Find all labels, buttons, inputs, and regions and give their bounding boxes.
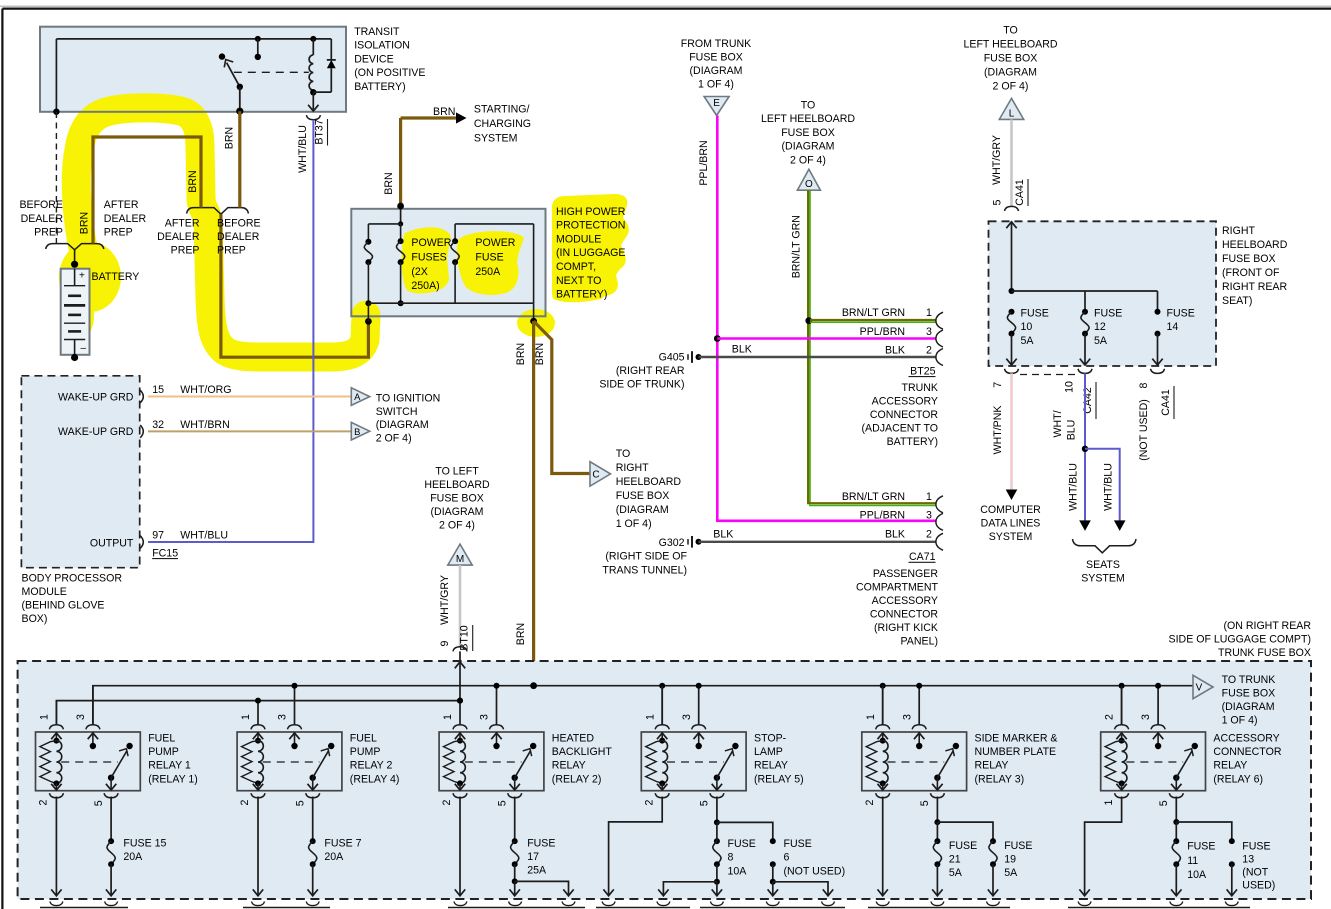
- svg-text:CONNECTOR: CONNECTOR: [870, 609, 938, 621]
- svg-text:5A: 5A: [1094, 335, 1108, 347]
- svg-text:1 OF 4): 1 OF 4): [616, 518, 652, 530]
- svg-text:DEVICE: DEVICE: [354, 53, 393, 65]
- svg-text:BLU: BLU: [1066, 420, 1078, 441]
- svg-text:(IN LUGGAGE: (IN LUGGAGE: [556, 247, 625, 259]
- svg-text:HEELBOARD: HEELBOARD: [616, 476, 682, 488]
- svg-text:DEALER: DEALER: [157, 231, 200, 243]
- svg-text:(DIAGRAM: (DIAGRAM: [431, 506, 484, 518]
- svg-text:1: 1: [926, 491, 932, 503]
- svg-text:BLK: BLK: [885, 528, 905, 540]
- svg-text:CONNECTOR: CONNECTOR: [870, 409, 938, 421]
- svg-text:5: 5: [93, 800, 105, 806]
- svg-text:8: 8: [728, 852, 734, 864]
- svg-text:RIGHT REAR: RIGHT REAR: [1222, 281, 1287, 293]
- svg-text:WHT/GRY: WHT/GRY: [991, 135, 1003, 185]
- svg-text:3: 3: [901, 714, 913, 720]
- svg-text:C: C: [592, 470, 599, 481]
- svg-text:BRN: BRN: [534, 343, 546, 365]
- svg-text:2 OF 4): 2 OF 4): [790, 155, 826, 167]
- svg-text:HIGH POWER: HIGH POWER: [556, 206, 626, 218]
- svg-text:POWER: POWER: [411, 237, 451, 249]
- svg-text:SEATS: SEATS: [1086, 559, 1120, 571]
- svg-text:3: 3: [479, 714, 491, 720]
- svg-text:10: 10: [1021, 321, 1033, 333]
- svg-text:BACKLIGHT: BACKLIGHT: [552, 746, 613, 758]
- svg-text:1 OF 4): 1 OF 4): [698, 79, 734, 91]
- svg-text:BRN/LT GRN: BRN/LT GRN: [842, 491, 905, 503]
- svg-text:(DIAGRAM: (DIAGRAM: [1222, 701, 1275, 713]
- svg-text:WHT/BLU: WHT/BLU: [1068, 463, 1080, 511]
- svg-text:B: B: [354, 426, 360, 437]
- svg-text:FUSE BOX: FUSE BOX: [781, 127, 835, 139]
- svg-text:FUSE BOX: FUSE BOX: [1222, 253, 1276, 265]
- svg-text:PPL/BRN: PPL/BRN: [860, 326, 905, 338]
- svg-text:FUSE BOX: FUSE BOX: [984, 53, 1038, 65]
- svg-text:5A: 5A: [949, 867, 963, 879]
- svg-text:V: V: [1196, 683, 1203, 694]
- svg-text:3: 3: [681, 714, 693, 720]
- svg-text:BLK: BLK: [732, 344, 752, 356]
- svg-text:E: E: [713, 98, 720, 109]
- svg-text:1: 1: [865, 714, 877, 720]
- svg-text:SYSTEM: SYSTEM: [1081, 573, 1125, 585]
- svg-text:15: 15: [152, 384, 164, 396]
- svg-text:97: 97: [152, 530, 164, 542]
- svg-text:(ON RIGHT REAR: (ON RIGHT REAR: [1223, 620, 1311, 632]
- svg-text:PPL/BRN: PPL/BRN: [860, 510, 905, 522]
- svg-text:11: 11: [1187, 855, 1198, 867]
- svg-text:SWITCH: SWITCH: [376, 406, 418, 418]
- svg-text:(DIAGRAM: (DIAGRAM: [690, 65, 743, 77]
- svg-text:TO IGNITION: TO IGNITION: [376, 392, 441, 404]
- svg-text:DEALER: DEALER: [217, 231, 260, 243]
- svg-text:250A): 250A): [411, 280, 439, 292]
- svg-text:HEATED: HEATED: [552, 732, 595, 744]
- svg-text:G302: G302: [659, 537, 685, 549]
- svg-text:FUSE: FUSE: [728, 838, 756, 850]
- svg-text:+: +: [79, 271, 85, 282]
- svg-text:(RELAY 4): (RELAY 4): [350, 773, 400, 785]
- svg-text:RELAY 1: RELAY 1: [148, 760, 191, 772]
- svg-text:(FRONT OF: (FRONT OF: [1222, 267, 1280, 279]
- svg-text:FUSE: FUSE: [1187, 841, 1215, 853]
- svg-text:20A: 20A: [324, 851, 344, 863]
- svg-text:19: 19: [1004, 853, 1016, 865]
- svg-text:CA42: CA42: [1082, 387, 1094, 414]
- svg-text:2: 2: [864, 799, 876, 805]
- svg-text:WHT/PNK: WHT/PNK: [992, 406, 1004, 455]
- svg-text:5A: 5A: [1021, 335, 1035, 347]
- svg-text:(RIGHT SIDE OF: (RIGHT SIDE OF: [605, 550, 687, 562]
- svg-text:PPL/BRN: PPL/BRN: [698, 140, 710, 185]
- svg-text:LEFT HEELBOARD: LEFT HEELBOARD: [761, 113, 855, 125]
- svg-text:RIGHT: RIGHT: [616, 462, 649, 474]
- svg-text:USED): USED): [1242, 880, 1275, 892]
- svg-text:FUEL: FUEL: [350, 732, 377, 744]
- svg-text:25A: 25A: [527, 865, 547, 877]
- svg-text:FUSE 15: FUSE 15: [123, 837, 166, 849]
- svg-text:(ADJACENT TO: (ADJACENT TO: [861, 423, 938, 435]
- svg-text:(NOT: (NOT: [1242, 867, 1268, 879]
- svg-text:WHT/ORG: WHT/ORG: [180, 384, 231, 396]
- svg-text:(BEHIND GLOVE: (BEHIND GLOVE: [22, 600, 105, 612]
- svg-text:TRANSIT: TRANSIT: [354, 26, 400, 38]
- svg-text:(2X: (2X: [411, 266, 428, 278]
- svg-text:(RIGHT KICK: (RIGHT KICK: [874, 622, 938, 634]
- svg-text:FC15: FC15: [152, 547, 178, 559]
- svg-text:3: 3: [277, 714, 289, 720]
- svg-text:FUSE: FUSE: [784, 838, 812, 850]
- svg-text:CHARGING: CHARGING: [474, 118, 531, 130]
- svg-text:TO: TO: [801, 99, 816, 111]
- svg-text:SYSTEM: SYSTEM: [474, 132, 518, 144]
- svg-text:20A: 20A: [123, 851, 143, 863]
- svg-text:LEFT HEELBOARD: LEFT HEELBOARD: [964, 39, 1058, 51]
- svg-text:BRN: BRN: [187, 170, 199, 192]
- svg-text:BRN: BRN: [515, 343, 527, 365]
- svg-text:BRN: BRN: [224, 127, 236, 149]
- svg-text:FUSE: FUSE: [949, 840, 977, 852]
- svg-text:SEAT): SEAT): [1222, 295, 1252, 307]
- svg-text:CA71: CA71: [909, 551, 936, 563]
- svg-text:FUSE BOX: FUSE BOX: [430, 493, 484, 505]
- svg-text:MODULE: MODULE: [22, 586, 67, 598]
- svg-text:BRN/LT GRN: BRN/LT GRN: [842, 307, 905, 319]
- svg-text:5: 5: [294, 800, 306, 806]
- svg-text:BT37: BT37: [314, 119, 326, 144]
- svg-text:WHT/GRY: WHT/GRY: [439, 575, 451, 625]
- svg-text:3: 3: [926, 326, 932, 338]
- svg-text:(RELAY 3): (RELAY 3): [975, 773, 1025, 785]
- svg-text:ISOLATION: ISOLATION: [354, 40, 410, 52]
- svg-text:FUSE: FUSE: [1167, 308, 1195, 320]
- svg-text:TO: TO: [616, 448, 631, 460]
- svg-text:LAMP: LAMP: [754, 746, 783, 758]
- svg-text:BODY PROCESSOR: BODY PROCESSOR: [22, 572, 123, 584]
- svg-text:NUMBER PLATE: NUMBER PLATE: [975, 746, 1057, 758]
- svg-text:RELAY 2: RELAY 2: [350, 760, 393, 772]
- svg-text:BOX): BOX): [22, 613, 48, 625]
- svg-text:BATTERY): BATTERY): [887, 436, 938, 448]
- svg-text:8: 8: [1138, 382, 1150, 388]
- svg-text:L: L: [1009, 108, 1015, 119]
- svg-text:WHT/BLU: WHT/BLU: [1102, 463, 1114, 511]
- svg-text:RIGHT: RIGHT: [1222, 225, 1255, 237]
- svg-text:G405: G405: [659, 351, 685, 363]
- svg-text:14: 14: [1167, 321, 1179, 333]
- svg-text:TO TRUNK: TO TRUNK: [1222, 674, 1276, 686]
- svg-text:AFTER: AFTER: [165, 217, 200, 229]
- svg-text:(RELAY 6): (RELAY 6): [1213, 773, 1263, 785]
- svg-text:2 OF 4): 2 OF 4): [376, 433, 412, 445]
- svg-text:(ON POSITIVE: (ON POSITIVE: [354, 67, 425, 79]
- svg-text:5: 5: [919, 800, 931, 806]
- svg-text:BLK: BLK: [885, 345, 905, 357]
- svg-text:(RIGHT REAR: (RIGHT REAR: [616, 365, 685, 377]
- svg-text:–: –: [81, 343, 87, 354]
- svg-text:COMPUTER: COMPUTER: [980, 504, 1041, 516]
- svg-text:5: 5: [992, 199, 1004, 205]
- svg-text:RELAY: RELAY: [754, 760, 788, 772]
- svg-text:NEXT TO: NEXT TO: [556, 275, 601, 287]
- svg-text:COMPT,: COMPT,: [556, 261, 596, 273]
- svg-text:BATTERY): BATTERY): [354, 81, 405, 93]
- svg-text:CA41: CA41: [1160, 389, 1172, 416]
- svg-text:DATA LINES: DATA LINES: [981, 518, 1041, 530]
- svg-text:BATTERY: BATTERY: [92, 271, 140, 283]
- svg-text:WAKE-UP GRD: WAKE-UP GRD: [58, 426, 134, 438]
- svg-text:2: 2: [38, 799, 50, 805]
- svg-text:ACCESSORY: ACCESSORY: [872, 595, 938, 607]
- svg-text:WHT/BLU: WHT/BLU: [297, 125, 309, 173]
- svg-text:(NOT USED): (NOT USED): [1138, 399, 1150, 461]
- svg-text:PANEL): PANEL): [901, 636, 938, 648]
- svg-text:SIDE OF TRUNK): SIDE OF TRUNK): [599, 379, 684, 391]
- svg-text:COMPARTMENT: COMPARTMENT: [856, 582, 939, 594]
- svg-text:5A: 5A: [1004, 867, 1018, 879]
- svg-text:FUSE: FUSE: [1094, 308, 1122, 320]
- svg-text:HEELBOARD: HEELBOARD: [424, 479, 490, 491]
- svg-text:BRN: BRN: [383, 172, 395, 194]
- svg-text:FUSE BOX: FUSE BOX: [689, 52, 743, 64]
- svg-text:13: 13: [1242, 854, 1254, 866]
- svg-text:17: 17: [527, 851, 539, 863]
- svg-text:WHT/: WHT/: [1052, 410, 1064, 437]
- svg-text:1 OF 4): 1 OF 4): [1222, 715, 1258, 727]
- svg-text:5: 5: [699, 800, 711, 806]
- svg-text:10: 10: [1064, 381, 1076, 393]
- svg-text:RELAY: RELAY: [1213, 760, 1247, 772]
- svg-text:OUTPUT: OUTPUT: [90, 538, 134, 550]
- svg-text:12: 12: [1094, 321, 1106, 333]
- svg-text:BRN: BRN: [515, 623, 527, 645]
- svg-text:PREP: PREP: [34, 227, 63, 239]
- svg-text:1: 1: [39, 714, 51, 720]
- svg-text:SIDE MARKER &: SIDE MARKER &: [975, 732, 1058, 744]
- svg-text:RELAY: RELAY: [975, 760, 1009, 772]
- svg-text:PUMP: PUMP: [350, 746, 381, 758]
- svg-text:FUEL: FUEL: [148, 732, 175, 744]
- svg-text:PASSENGER: PASSENGER: [873, 568, 938, 580]
- svg-text:3: 3: [926, 510, 932, 522]
- svg-text:2: 2: [926, 528, 932, 540]
- svg-text:250A: 250A: [475, 266, 501, 278]
- svg-text:BT25: BT25: [910, 365, 935, 377]
- svg-text:2 OF 4): 2 OF 4): [993, 81, 1029, 93]
- svg-text:5: 5: [1158, 800, 1170, 806]
- svg-text:RELAY: RELAY: [552, 760, 586, 772]
- svg-text:(RELAY 2): (RELAY 2): [552, 773, 602, 785]
- svg-text:AFTER: AFTER: [104, 199, 139, 211]
- svg-text:2: 2: [926, 345, 932, 357]
- svg-text:(RELAY 5): (RELAY 5): [754, 773, 804, 785]
- svg-text:7: 7: [992, 382, 1004, 388]
- svg-text:FUSE: FUSE: [527, 837, 555, 849]
- svg-text:(NOT USED): (NOT USED): [784, 866, 846, 878]
- svg-text:BRN/LT GRN: BRN/LT GRN: [791, 215, 803, 278]
- svg-text:9: 9: [439, 640, 451, 646]
- svg-text:TO LEFT: TO LEFT: [435, 466, 479, 478]
- svg-text:1: 1: [240, 714, 252, 720]
- svg-text:BLK: BLK: [713, 528, 733, 540]
- svg-text:TRANS TUNNEL): TRANS TUNNEL): [602, 564, 687, 576]
- svg-text:(DIAGRAM: (DIAGRAM: [376, 419, 429, 431]
- svg-text:TO: TO: [1003, 25, 1018, 37]
- svg-text:3: 3: [1140, 714, 1152, 720]
- svg-text:A: A: [354, 391, 361, 402]
- svg-text:WAKE-UP GRD: WAKE-UP GRD: [58, 392, 134, 404]
- svg-text:WHT/BRN: WHT/BRN: [180, 419, 229, 431]
- svg-text:FROM TRUNK: FROM TRUNK: [681, 38, 751, 50]
- svg-text:DEALER: DEALER: [21, 213, 64, 225]
- svg-text:STOP-: STOP-: [754, 732, 787, 744]
- svg-text:1: 1: [644, 714, 656, 720]
- svg-text:SYSTEM: SYSTEM: [989, 531, 1033, 543]
- svg-text:M: M: [456, 554, 464, 565]
- svg-text:BEFORE: BEFORE: [19, 199, 63, 211]
- svg-text:BRN: BRN: [78, 212, 90, 234]
- svg-text:FUSES: FUSES: [411, 252, 446, 264]
- svg-text:ACCESSORY: ACCESSORY: [1213, 732, 1279, 744]
- svg-text:HEELBOARD: HEELBOARD: [1222, 239, 1288, 251]
- svg-text:FUSE: FUSE: [475, 252, 503, 264]
- svg-text:CONNECTOR: CONNECTOR: [1213, 746, 1281, 758]
- svg-text:2: 2: [1104, 714, 1116, 720]
- svg-text:DEALER: DEALER: [104, 213, 147, 225]
- svg-text:FUSE: FUSE: [1004, 840, 1032, 852]
- svg-text:O: O: [805, 179, 813, 190]
- svg-text:(DIAGRAM: (DIAGRAM: [782, 141, 835, 153]
- svg-text:FUSE: FUSE: [1021, 308, 1049, 320]
- svg-text:TRUNK: TRUNK: [902, 382, 939, 394]
- svg-text:5: 5: [496, 800, 508, 806]
- svg-text:PREP: PREP: [104, 227, 133, 239]
- svg-text:2: 2: [643, 799, 655, 805]
- svg-text:FUSE: FUSE: [1242, 841, 1270, 853]
- svg-text:2: 2: [441, 799, 453, 805]
- svg-text:PREP: PREP: [217, 245, 246, 257]
- svg-text:1: 1: [1103, 799, 1115, 805]
- svg-text:FUSE BOX: FUSE BOX: [616, 490, 670, 502]
- svg-text:6: 6: [784, 852, 790, 864]
- svg-text:CA41: CA41: [1014, 179, 1026, 206]
- svg-text:(DIAGRAM: (DIAGRAM: [616, 504, 669, 516]
- svg-text:MODULE: MODULE: [556, 233, 601, 245]
- svg-text:TRUNK FUSE BOX: TRUNK FUSE BOX: [1218, 647, 1311, 659]
- svg-text:FUSE BOX: FUSE BOX: [1222, 688, 1276, 700]
- svg-text:SIDE OF LUGGAGE COMPT): SIDE OF LUGGAGE COMPT): [1169, 634, 1311, 646]
- svg-text:3: 3: [75, 714, 87, 720]
- svg-text:BATTERY): BATTERY): [556, 289, 607, 301]
- svg-text:POWER: POWER: [475, 237, 515, 249]
- svg-text:PREP: PREP: [171, 245, 200, 257]
- svg-text:PROTECTION: PROTECTION: [556, 220, 625, 232]
- svg-text:(DIAGRAM: (DIAGRAM: [984, 67, 1037, 79]
- svg-text:32: 32: [152, 419, 164, 431]
- svg-text:BEFORE: BEFORE: [217, 217, 261, 229]
- svg-text:WHT/BLU: WHT/BLU: [180, 530, 228, 542]
- svg-text:1: 1: [926, 307, 932, 319]
- svg-text:2: 2: [239, 799, 251, 805]
- svg-text:PUMP: PUMP: [148, 746, 179, 758]
- svg-text:10A: 10A: [1187, 869, 1207, 881]
- svg-text:BRN: BRN: [433, 106, 455, 118]
- svg-text:21: 21: [949, 853, 961, 865]
- svg-text:(RELAY 1): (RELAY 1): [148, 773, 198, 785]
- svg-text:FUSE 7: FUSE 7: [324, 837, 361, 849]
- svg-text:ACCESSORY: ACCESSORY: [872, 396, 938, 408]
- svg-text:10A: 10A: [728, 866, 748, 878]
- svg-text:1: 1: [442, 714, 454, 720]
- svg-text:STARTING/: STARTING/: [474, 104, 530, 116]
- svg-text:2 OF 4): 2 OF 4): [439, 520, 475, 532]
